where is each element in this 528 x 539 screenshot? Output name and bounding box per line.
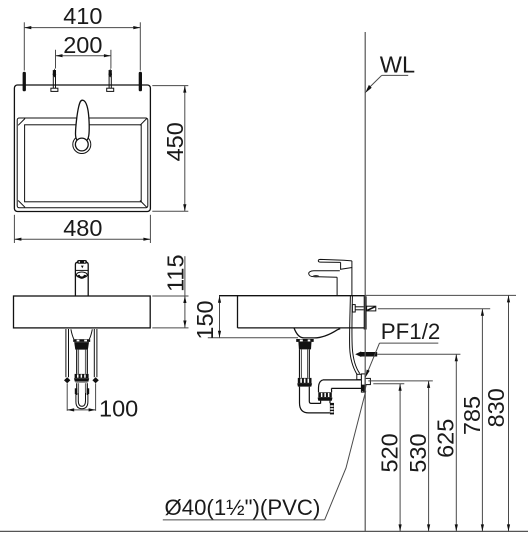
svg-text:150: 150 bbox=[192, 300, 218, 339]
svg-text:480: 480 bbox=[63, 215, 102, 241]
svg-text:830: 830 bbox=[483, 388, 509, 427]
svg-text:Ø40(1½")(PVC): Ø40(1½")(PVC) bbox=[165, 495, 321, 520]
svg-text:530: 530 bbox=[405, 433, 431, 472]
svg-text:200: 200 bbox=[63, 32, 102, 58]
svg-text:115: 115 bbox=[163, 254, 189, 291]
svg-text:PF1/2: PF1/2 bbox=[381, 319, 441, 344]
svg-text:WL: WL bbox=[380, 52, 415, 78]
svg-text:100: 100 bbox=[99, 395, 138, 421]
svg-text:450: 450 bbox=[162, 122, 188, 161]
svg-text:785: 785 bbox=[459, 396, 485, 435]
svg-text:410: 410 bbox=[63, 3, 102, 29]
svg-text:520: 520 bbox=[377, 433, 403, 472]
svg-text:625: 625 bbox=[433, 419, 459, 458]
